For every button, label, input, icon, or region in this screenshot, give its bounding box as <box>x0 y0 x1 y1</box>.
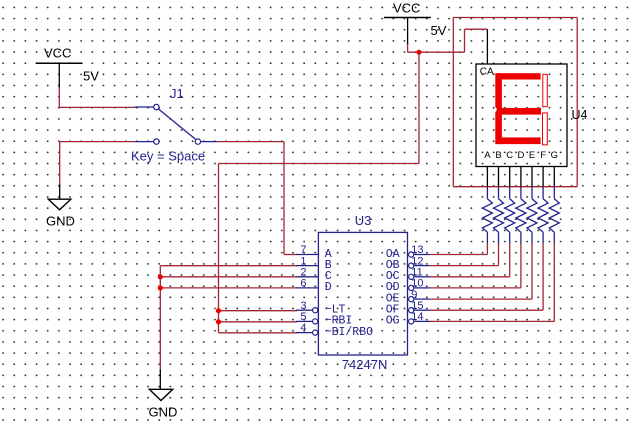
wire to U3 pin LT <box>219 310 298 312</box>
switch J1 Key = Space <box>131 86 205 164</box>
svg-text:VCC: VCC <box>44 46 71 61</box>
U4 segment B unlit <box>543 74 548 106</box>
svg-text:GND: GND <box>46 214 75 229</box>
svg-text:OG: OG <box>386 315 400 328</box>
resistor R7 <box>549 187 559 244</box>
svg-text:15: 15 <box>411 300 423 312</box>
U3 pin 4 ~BI/RBO <box>296 322 373 339</box>
resistor R1 <box>482 187 492 244</box>
U3 pin 3 ~LT <box>296 300 346 317</box>
wire VCC rail loop <box>453 18 577 187</box>
U3 pin 2 C <box>296 267 332 284</box>
wire VCC1 to J1 pin 1 <box>59 87 153 107</box>
svg-text:14: 14 <box>411 311 423 323</box>
wire R5 to U3 pin 9 <box>430 243 532 299</box>
U3 pin 5 ~RBI <box>296 311 352 328</box>
svg-text:1: 1 <box>300 255 306 267</box>
resistor R5 <box>527 187 537 244</box>
svg-text:12: 12 <box>411 255 423 267</box>
svg-text:J1: J1 <box>170 86 184 101</box>
wire R7 to U3 pin 14 <box>430 243 555 321</box>
resistor R3 <box>505 187 515 244</box>
svg-text:5V: 5V <box>83 69 99 84</box>
svg-text:G: G <box>551 150 558 161</box>
wire R3 to U3 pin 11 <box>430 243 510 277</box>
svg-text:Key = Space: Key = Space <box>131 148 205 163</box>
svg-text:B: B <box>495 150 501 161</box>
U3 pin 10 OD <box>386 278 430 295</box>
U3 pin 7 A <box>296 244 332 261</box>
U3 pin 13 OA <box>386 244 430 261</box>
svg-text:C: C <box>506 150 513 161</box>
svg-text:5V: 5V <box>431 23 447 38</box>
svg-text:D: D <box>325 281 332 294</box>
U3 pin 1 B <box>296 255 332 272</box>
svg-text:3: 3 <box>300 300 306 312</box>
seven-segment display U4 <box>476 29 588 166</box>
resistor R2 <box>494 187 504 244</box>
wire R4 to U3 pin 10 <box>430 243 521 288</box>
ground GND1 <box>46 185 75 229</box>
svg-text:F: F <box>540 150 546 161</box>
U3 pin 9 OE <box>386 289 430 306</box>
U3 pin 12 OB <box>386 255 430 272</box>
U4 segment pin letters A-G <box>484 150 558 161</box>
U4 segment G lit <box>497 108 541 115</box>
resistor R4 <box>516 187 526 244</box>
wire VCC2 down to blanking inputs net <box>219 52 420 333</box>
U3 pin 15 OF <box>386 300 430 317</box>
wire R1 to U3 pin 13 <box>430 243 488 255</box>
svg-text:10: 10 <box>411 278 423 290</box>
U4 segments F and E lit <box>495 73 502 144</box>
wire R2 to U3 pin 12 <box>430 243 499 266</box>
svg-text:~BI/RBO: ~BI/RBO <box>325 326 373 339</box>
wire to U3 pin BI/RBO <box>219 332 298 334</box>
wire VCC2 to display CA pin <box>408 29 488 52</box>
junction dot VCC2 node <box>416 50 421 55</box>
svg-text:GND: GND <box>149 405 178 420</box>
wire U3 inputs B C D to GND2 <box>160 266 297 371</box>
U3 pin 11 OC <box>386 267 430 284</box>
U4 segment A lit <box>497 73 541 79</box>
svg-text:U4: U4 <box>572 108 588 122</box>
svg-text:D: D <box>517 150 524 161</box>
U4 segment D lit <box>497 137 541 144</box>
svg-text:VCC: VCC <box>393 1 420 16</box>
wire J1 pin 3 to U3 pin A <box>201 142 297 255</box>
svg-text:74247N: 74247N <box>342 357 388 372</box>
power VCC2 5V <box>384 1 447 45</box>
wire J1 pin 2 to GND1 <box>60 142 154 186</box>
junction dot LT <box>216 308 221 313</box>
junction dot C <box>158 274 163 279</box>
svg-text:4: 4 <box>300 322 306 334</box>
U4 segment pin leads <box>487 167 554 187</box>
wire R6 to U3 pin 15 <box>430 243 543 310</box>
U3 pin 14 OG <box>386 311 430 328</box>
power VCC1 5V <box>36 46 99 88</box>
op IC U3 74247N body <box>318 213 407 372</box>
svg-text:A: A <box>484 150 491 161</box>
svg-text:CA: CA <box>480 67 494 78</box>
U3 pin 6 D <box>296 278 332 295</box>
svg-text:U3: U3 <box>355 213 372 228</box>
ground GND2 <box>149 370 178 420</box>
junction dot RBI <box>216 319 221 324</box>
svg-text:E: E <box>529 150 535 161</box>
wire to U3 pin RBI <box>219 321 298 323</box>
svg-text:6: 6 <box>300 278 306 290</box>
U4 segment C unlit <box>543 113 548 145</box>
junction dot D <box>158 285 163 290</box>
resistor R6 <box>538 187 548 244</box>
